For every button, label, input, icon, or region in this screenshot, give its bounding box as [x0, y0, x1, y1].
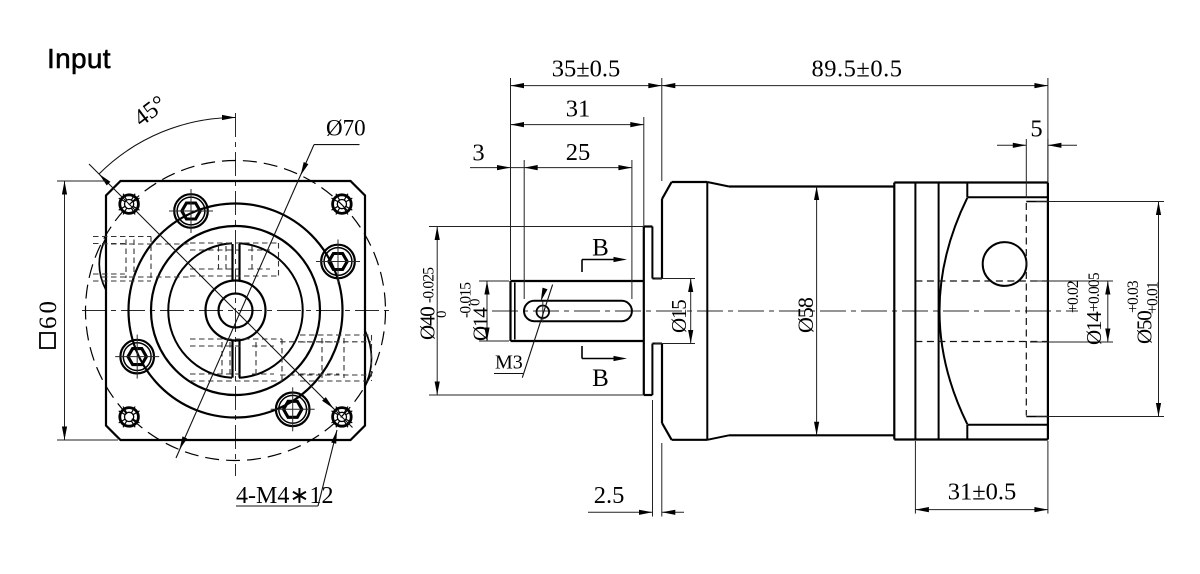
arrow O70 lower	[179, 436, 187, 449]
arrow 25 right	[618, 165, 632, 170]
arrow 31b right	[1034, 507, 1048, 512]
45deg diagonal line	[89, 164, 353, 428]
hidden recess bottom dashed	[1025, 203, 1027, 416]
dim line 31	[511, 124, 644, 126]
arrow 31 right	[630, 122, 644, 127]
section mark B top	[582, 257, 627, 272]
ext line O14R bottom	[1030, 341, 1113, 343]
svg-text:35±0.5: 35±0.5	[552, 56, 621, 83]
M3 hole circle	[537, 306, 550, 319]
carrier slit top	[233, 244, 240, 281]
arrow arc top	[222, 115, 236, 120]
recess bore top edge	[1026, 201, 1048, 203]
arrow arc left	[99, 174, 110, 185]
svg-text:60: 60	[35, 298, 62, 329]
angular dim arc 45deg	[99, 117, 236, 174]
ext line sq60 bottom	[57, 439, 118, 441]
leader underline O70	[314, 144, 360, 146]
ext line O14 top	[479, 280, 509, 282]
hidden slot left-top	[93, 237, 151, 282]
socket screw hole left-lower	[115, 335, 159, 379]
ext line body face down	[661, 443, 663, 517]
svg-text:0: 0	[468, 299, 484, 307]
leader line 4-M4*12	[318, 430, 337, 506]
M3 hole vertical tick	[542, 302, 544, 323]
section mark B bottom	[582, 346, 627, 361]
body face lower	[661, 344, 663, 424]
ext line O40 bottom	[429, 394, 644, 396]
output flange bottom edge	[672, 439, 708, 441]
boss arc protruding left edge	[99, 238, 106, 290]
ext line O50 bottom	[1036, 416, 1164, 418]
output flange top edge	[672, 181, 708, 183]
arrow 31b left	[915, 507, 929, 512]
arrow 2.5 right	[662, 510, 676, 515]
side view horizontal centerline	[492, 310, 1078, 312]
arrow O58 bottom	[814, 422, 819, 436]
dim line 5 left tail	[997, 144, 1026, 146]
arrow 2.5 left	[639, 510, 653, 515]
svg-text:+0.005: +0.005	[1086, 272, 1103, 312]
arrow O14R bottom	[1105, 329, 1110, 343]
ext line sq60 top	[57, 180, 107, 182]
socket screw hole bottom	[271, 387, 315, 431]
shaft end chamfer line	[514, 283, 516, 340]
left view vertical centerline	[235, 113, 237, 476]
boss front face O40	[643, 227, 645, 396]
svg-text:2.5: 2.5	[594, 482, 625, 509]
dim line sq60	[64, 181, 66, 440]
output flange chamfer top	[707, 182, 729, 187]
rear step vertical bottom	[966, 425, 968, 440]
dim line O14R	[1107, 281, 1109, 342]
input coupling circle	[206, 281, 266, 341]
ext line right face down	[1047, 441, 1049, 514]
label square 60	[40, 333, 55, 348]
boss rear upper	[651, 227, 653, 279]
dim line O14	[486, 281, 488, 341]
output flange corner chamfer top-left	[662, 182, 672, 199]
svg-text:25: 25	[566, 139, 591, 166]
arrow 31 left	[511, 122, 525, 127]
ring gear circle ~O40	[151, 226, 320, 395]
hidden slot center-top	[190, 243, 279, 276]
ext line recess dashed up	[1025, 139, 1027, 198]
arrow O40 top	[435, 227, 440, 241]
arrow O58 top	[814, 187, 819, 201]
ext line groove left down	[652, 400, 654, 517]
socket screw hole right-upper	[316, 240, 360, 284]
shaft top edge	[511, 280, 644, 282]
M4 threaded hole bottom-left	[119, 407, 140, 428]
carrier slit bottom	[233, 341, 240, 378]
arrow on diagonal at hole	[322, 397, 333, 408]
arrow sq60 bottom	[62, 427, 67, 441]
rear section line	[914, 183, 916, 440]
arrow 4-M4*12	[331, 430, 337, 444]
arrow 25 left	[524, 165, 538, 170]
boss rear lower	[651, 344, 653, 396]
arrow 5 right	[1048, 143, 1062, 148]
svg-text:31: 31	[566, 96, 591, 123]
svg-text:3: 3	[472, 140, 484, 167]
dim line O15	[690, 279, 692, 344]
svg-text:B: B	[592, 365, 609, 392]
ext line body face up	[661, 78, 663, 181]
arrow O14 bottom	[484, 328, 489, 342]
svg-text:Ø58: Ø58	[793, 297, 818, 333]
hidden slot right-middle	[300, 335, 372, 381]
arrow sq60 top	[62, 181, 67, 195]
rear right face	[1047, 183, 1049, 440]
svg-text:Ø50: Ø50	[1133, 311, 1157, 344]
rear recess bottom edge O50	[967, 424, 1048, 426]
svg-text:M3: M3	[495, 352, 523, 374]
arrow O15 bottom	[688, 330, 693, 344]
dim line 35	[511, 85, 662, 87]
hidden slot center-bottom	[190, 339, 282, 381]
arrow 35 left	[511, 83, 525, 88]
M4 threaded hole top-left	[119, 194, 140, 215]
output flange chamfer bottom	[707, 435, 729, 440]
shaft bottom edge	[511, 340, 644, 342]
ext line keyway right up	[631, 160, 633, 299]
rear concave arc	[940, 198, 968, 424]
boss top edge	[644, 225, 653, 227]
body bottom edge	[729, 434, 894, 436]
rear flange bottom edge	[894, 438, 1048, 440]
ext line O15 bottom	[655, 343, 695, 345]
left view horizontal centerline	[82, 310, 390, 312]
ext line O40 top	[429, 226, 644, 228]
carrier circle (slotted)	[168, 243, 302, 378]
leader line O70	[176, 145, 314, 458]
rear recess top edge O50	[967, 196, 1048, 198]
keyway slot	[524, 301, 632, 321]
center bore circle	[219, 294, 253, 328]
arrow O50 bottom	[1156, 403, 1161, 417]
arrow O14 top	[484, 281, 489, 295]
ext line shaft end up	[510, 78, 512, 280]
groove top edge O15	[652, 278, 662, 280]
rear flange front line	[938, 183, 940, 440]
M4 threaded hole bottom-right	[332, 407, 353, 428]
arrow O14R top	[1105, 281, 1110, 295]
boss bottom edge	[644, 394, 653, 396]
svg-text:+0.03: +0.03	[1125, 280, 1142, 313]
svg-text:B: B	[592, 235, 609, 262]
body top edge	[729, 185, 894, 187]
ext line O50 top	[1036, 201, 1164, 203]
groove bottom edge O15	[652, 343, 662, 345]
arrow O50 top	[1156, 202, 1161, 216]
ext line O15 top	[655, 278, 695, 280]
boss arc protruding right edge	[365, 331, 372, 387]
dim line O40	[436, 227, 438, 396]
dim line O58	[816, 187, 818, 436]
svg-text:89.5±0.5: 89.5±0.5	[812, 56, 903, 83]
arrow O70 upper	[301, 162, 309, 175]
ext line boss face up	[643, 117, 645, 226]
output flange rear face	[706, 182, 708, 440]
hidden input bore bottom dashed	[915, 341, 1048, 343]
arrow 35 right	[648, 83, 662, 88]
dim line 2.5 right tail	[662, 511, 684, 513]
dim line 2.5 left tail	[588, 511, 653, 513]
svg-text:Ø15: Ø15	[667, 300, 691, 333]
dim line 89.5	[662, 85, 1048, 87]
svg-text:+0.02: +0.02	[1065, 281, 1082, 313]
bolt circle O70 dashed	[86, 161, 386, 461]
arrow 3 left	[497, 165, 511, 170]
svg-text:+0.01: +0.01	[1145, 282, 1162, 314]
svg-text:31±0.5: 31±0.5	[948, 479, 1017, 506]
svg-text:Ø70: Ø70	[326, 116, 366, 141]
arrow 5 left	[1013, 143, 1027, 148]
M3 leader arrow	[541, 288, 548, 302]
ext line O14R top	[1030, 280, 1113, 282]
svg-text:4-M4∗12: 4-M4∗12	[236, 483, 333, 509]
ext line O14 bottom	[479, 340, 509, 342]
body rear joint line	[893, 183, 895, 440]
arrow 89.5 right	[1034, 83, 1048, 88]
ext line rear flange right up	[1047, 78, 1049, 182]
recess bore bottom edge	[1026, 416, 1048, 418]
arrow 89.5 left	[662, 83, 676, 88]
ext line keyway left up	[523, 160, 525, 299]
dim line 31b	[915, 509, 1048, 511]
rear step vertical top	[966, 183, 968, 198]
leader underline 4-M4*12	[236, 505, 318, 507]
rear face hole circle	[983, 242, 1027, 286]
M4 threaded hole top-right	[332, 194, 353, 215]
shaft end line	[509, 281, 511, 341]
arrow O40 bottom	[435, 382, 440, 396]
dim line 5 right tail	[1048, 144, 1077, 146]
square flange outline (60x60, chamfered corners)	[106, 181, 365, 440]
svg-text:Input: Input	[47, 43, 111, 74]
svg-text:0: 0	[434, 311, 450, 319]
rear flange top edge	[894, 181, 1048, 183]
svg-text:-0.025: -0.025	[421, 267, 438, 303]
arrow O15 top	[688, 279, 693, 293]
svg-text:5: 5	[1030, 116, 1042, 143]
M3 leader line	[522, 285, 552, 378]
socket screw hole top	[169, 189, 213, 233]
ext line right face up2	[1047, 139, 1049, 182]
body face upper	[661, 199, 663, 279]
M3 leader underline	[494, 373, 523, 375]
dim line 3 and 25	[470, 167, 632, 169]
dim line O50	[1158, 202, 1160, 417]
motor spigot recess circle O50	[129, 204, 343, 418]
svg-text:Ø14: Ø14	[1082, 311, 1106, 345]
ext line rear section down	[914, 441, 916, 514]
hidden input bore top dashed	[915, 280, 1048, 282]
output flange corner chamfer bottom-left	[662, 423, 672, 440]
